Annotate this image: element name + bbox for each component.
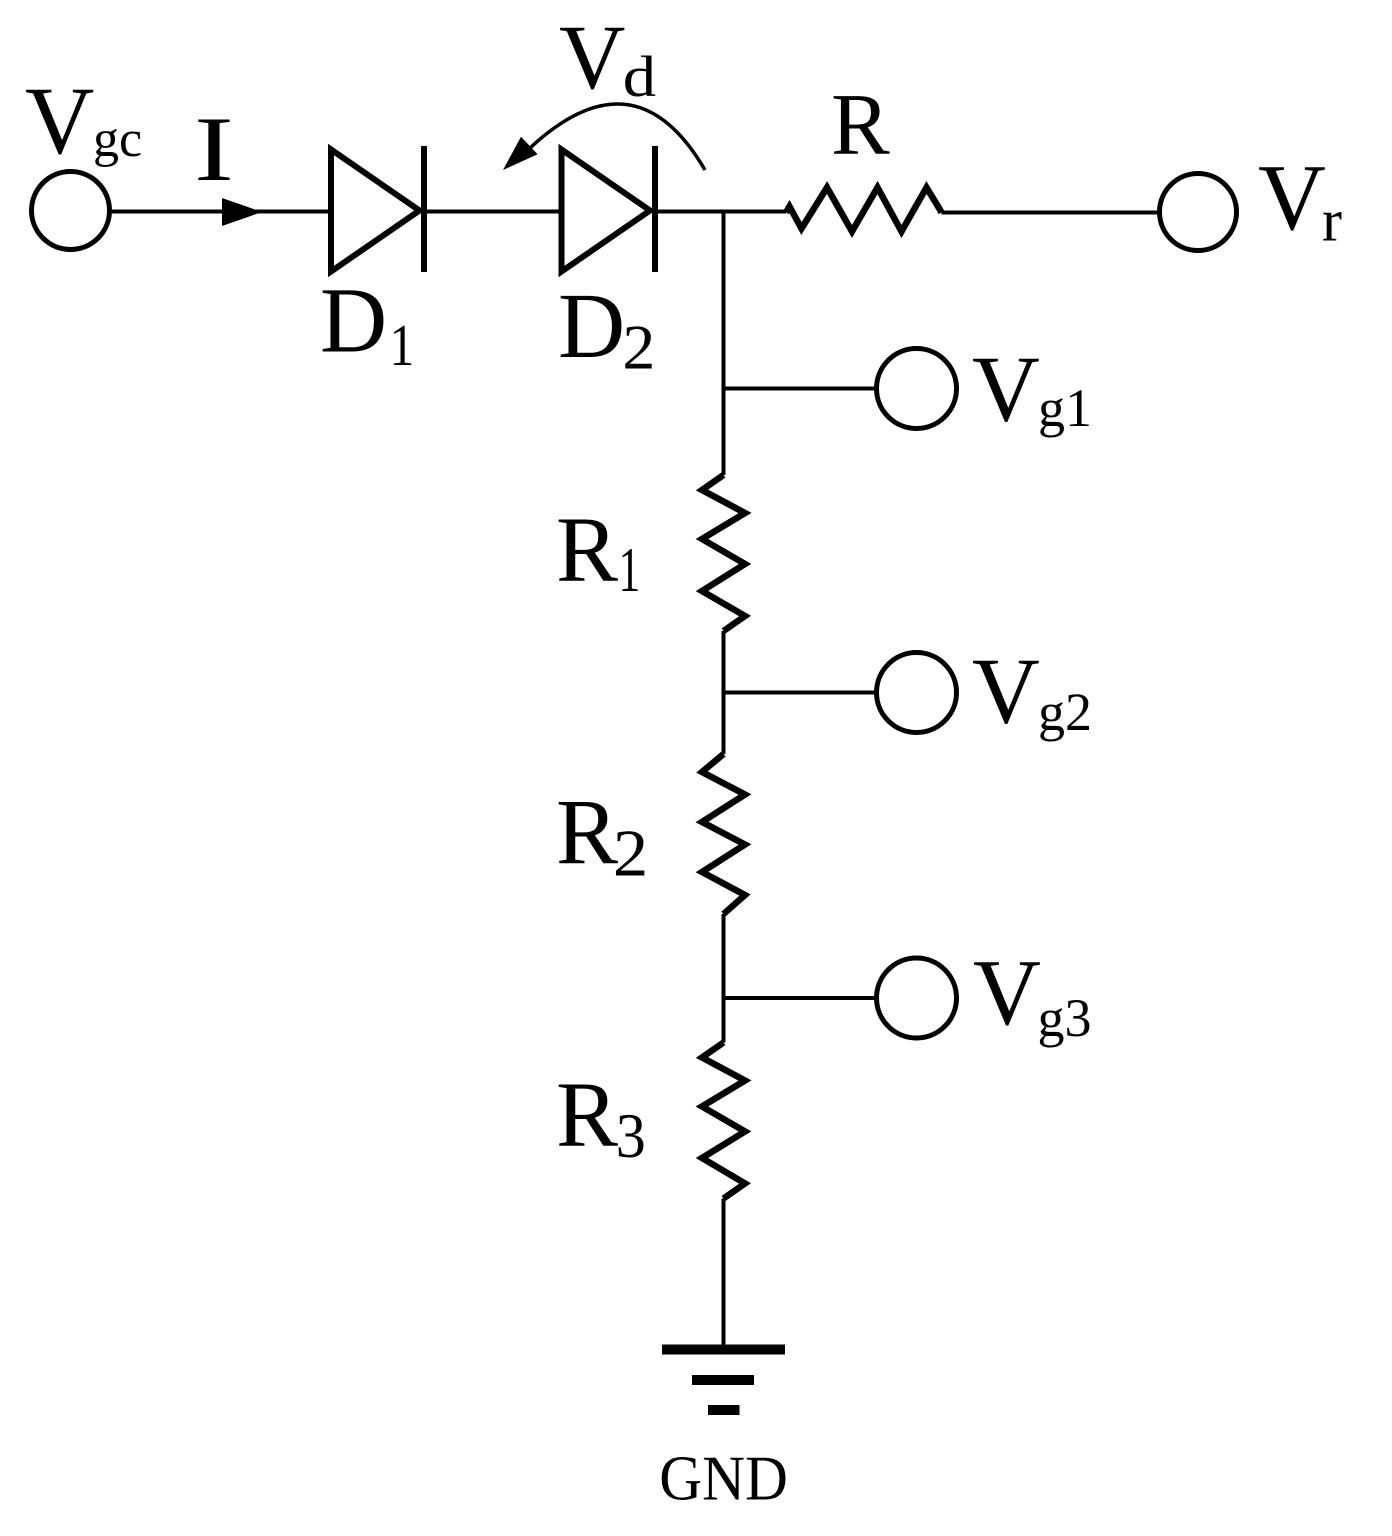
svg-text:D: D (558, 275, 625, 378)
svg-text:V: V (559, 6, 625, 108)
vertical wire: node to R1 (722, 210, 726, 475)
wire D2 to R (658, 210, 786, 214)
Vd arc arrowhead (503, 137, 538, 170)
vertical wire R1 to R2 (722, 631, 726, 754)
diode D1 (331, 146, 424, 272)
svg-text:V: V (25, 67, 94, 174)
svg-text:R: R (556, 782, 618, 885)
svg-text:R: R (556, 1064, 618, 1167)
svg-text:2: 2 (613, 816, 648, 890)
svg-text:3: 3 (616, 1101, 646, 1171)
terminal Vg1 (877, 349, 957, 429)
svg-text:1: 1 (619, 534, 641, 605)
wire Vgc to D1 (112, 210, 331, 214)
resistor R (786, 188, 942, 232)
svg-text:GND: GND (659, 1444, 788, 1514)
wire branch to Vg2 (724, 691, 877, 695)
diode D2 (562, 146, 656, 272)
svg-text:D: D (320, 270, 387, 373)
vertical wire R3 to ground (722, 1199, 726, 1351)
ground (662, 1350, 785, 1411)
resistor R1 (702, 475, 745, 631)
svg-text:g1: g1 (1038, 378, 1092, 438)
svg-text:2: 2 (622, 312, 655, 383)
svg-text:r: r (1322, 188, 1342, 254)
svg-text:g2: g2 (1038, 682, 1092, 742)
wire branch to Vg3 (724, 996, 877, 1000)
resistor R2 (702, 754, 745, 914)
terminal Vg2 (877, 653, 957, 733)
svg-text:R: R (831, 77, 890, 174)
svg-text:I: I (194, 99, 234, 201)
svg-text:gc: gc (93, 111, 142, 168)
svg-text:1: 1 (390, 312, 415, 378)
current arrow I (222, 198, 262, 226)
vertical wire R2 to R3 (722, 914, 726, 1043)
terminal Vg3 (877, 958, 957, 1038)
terminal Vgc (32, 172, 110, 250)
wire R to Vr (942, 211, 1159, 215)
wire D1 to D2 (427, 210, 562, 214)
svg-text:d: d (623, 44, 656, 109)
resistor R3 (702, 1043, 745, 1199)
Vd measurement arc (530, 104, 705, 170)
svg-text:V: V (972, 338, 1040, 442)
svg-text:g3: g3 (1038, 988, 1092, 1048)
wire branch to Vg1 (724, 387, 877, 391)
svg-text:V: V (1258, 146, 1326, 250)
svg-text:V: V (973, 941, 1041, 1045)
terminal Vr (1160, 174, 1237, 251)
svg-text:V: V (972, 640, 1040, 744)
svg-text:R: R (556, 499, 618, 602)
